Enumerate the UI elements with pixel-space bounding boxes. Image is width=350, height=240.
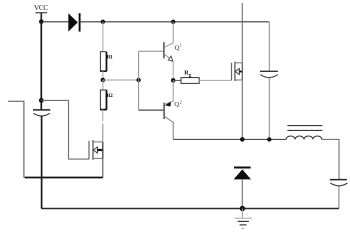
diode D1 cathode bar (79, 13, 81, 31)
capacitor C2 top plate (260, 70, 278, 72)
node VCC junction (39, 19, 44, 24)
wire Rg to gate (199, 79, 231, 81)
transistor Q1 collector (164, 22, 173, 47)
wire R2 to M2 drain (102, 110, 104, 122)
inductor L1 core lines (287, 126, 322, 131)
mosfet M1 source stub (235, 79, 242, 81)
svg-text:1: 1 (180, 42, 182, 47)
node R1-R2 junction (101, 78, 106, 83)
wire top rail left segment (41, 21, 68, 23)
wire Q1 emitter to node (172, 61, 174, 80)
svg-text:R1: R1 (107, 54, 113, 60)
resistor Rg body (181, 78, 199, 84)
mosfet M1 channel bar (234, 62, 236, 81)
resistor R2 body (100, 90, 106, 110)
node rail-Q1 junction (171, 20, 175, 24)
wire bases bracket vertical (138, 51, 140, 110)
node C1 gate-wire junction (39, 98, 44, 103)
wire C3 bottom (338, 186, 340, 209)
wire R1 column from rail (102, 22, 104, 52)
svg-text:Q: Q (174, 101, 179, 108)
capacitor C2 top wire (268, 22, 270, 71)
wire VCC column lower (41, 116, 43, 208)
svg-text:2: 2 (180, 99, 182, 104)
mosfet M2 channel bar (92, 140, 94, 160)
wire thick return line (25, 177, 103, 179)
wire VCC column upper (40, 22, 42, 110)
wire M2 source column (102, 158, 104, 177)
node bracket junction (136, 78, 140, 82)
wire M1 source column (241, 80, 243, 139)
svg-text:R2: R2 (107, 93, 113, 99)
node C2 junction (267, 137, 271, 141)
wire switch node horizontal (173, 138, 286, 140)
transistor Q2 collector (165, 116, 174, 139)
mosfet M1 drain stub (235, 62, 242, 64)
mosfet M2 body line with arrow (93, 147, 97, 153)
mosfet M2 gate bar (88, 141, 90, 159)
wire top rail right segment (80, 21, 270, 23)
node M1 source junction (240, 137, 245, 142)
capacitor C3 top plate (330, 179, 347, 181)
transistor Q1 base bar (163, 42, 165, 58)
wire base bias to bracket (103, 79, 139, 81)
wire R1 to node (102, 71, 104, 80)
wire VCC stem (40, 13, 42, 22)
node rail-R1 junction (101, 20, 105, 24)
ground symbol bars (234, 217, 251, 219)
wire bottom ground rail (41, 208, 339, 210)
mosfet M1 gate bar (231, 63, 233, 81)
wire C2 bottom (268, 78, 270, 140)
wire node to Rg (173, 79, 181, 81)
wire left input bracket (8, 101, 24, 177)
transistor Q2 base wire (139, 109, 165, 111)
node gate drive output (171, 78, 176, 83)
diode D2 cathode bar (234, 167, 251, 169)
mosfet M1 body line with arrow (235, 69, 239, 75)
inductor L1 winding (286, 136, 322, 139)
wire D2 anode to ground rail (241, 179, 243, 208)
svg-text:g: g (189, 72, 192, 78)
wire inductor to C3 (322, 139, 339, 179)
capacitor C3 curved plate (330, 183, 347, 186)
transistor Q1 emitter with arrow (164, 54, 173, 61)
capacitor C1 curved plate (34, 113, 50, 116)
VCC power terminal bar (35, 12, 47, 14)
mosfet M2 drain stub (93, 141, 103, 143)
ground symbol stem (241, 209, 243, 218)
transistor Q2 base bar (163, 103, 165, 119)
resistor R1 body (100, 52, 106, 71)
wire M2 gate path (41, 100, 89, 159)
svg-text:VCC: VCC (34, 4, 48, 12)
wire R2 top (102, 80, 104, 90)
diode D2 triangle (234, 169, 251, 179)
wire M1 drain column (241, 3, 243, 63)
node ground junction (240, 206, 245, 211)
capacitor C2 curved plate (260, 75, 277, 78)
diode D1 anode triangle (68, 13, 78, 31)
transistor Q2 emitter with arrow (165, 80, 174, 104)
transistor Q1 base wire (139, 50, 164, 52)
mosfet M2 source stub (93, 157, 103, 159)
capacitor C1 top plate (33, 109, 50, 111)
